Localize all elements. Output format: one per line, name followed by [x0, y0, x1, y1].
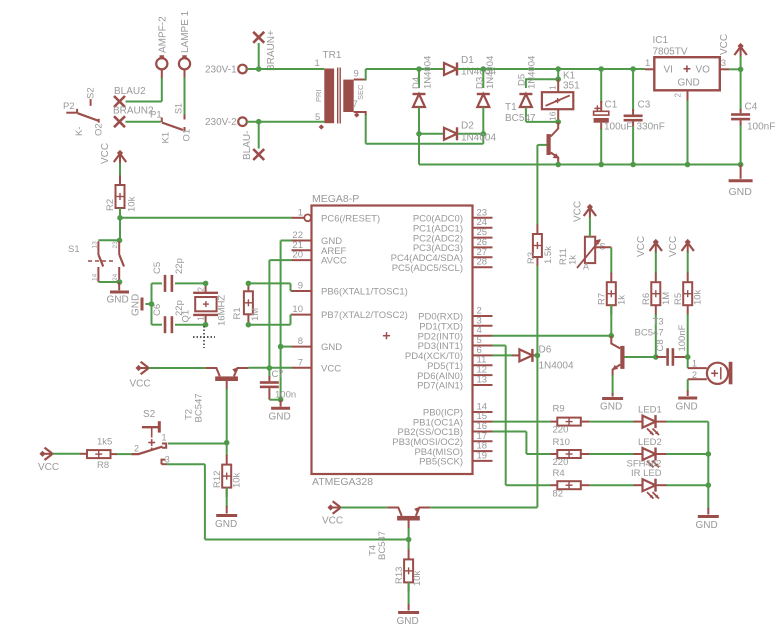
diode D5 1N4004: [516, 56, 537, 122]
svg-text:C3: C3: [638, 100, 651, 111]
svg-text:1: 1: [692, 359, 697, 369]
svg-text:D6: D6: [539, 345, 552, 356]
svg-text:230V-2: 230V-2: [205, 117, 237, 128]
svg-text:1: 1: [298, 207, 303, 218]
junction T1 emitter / ground rail: [555, 162, 561, 168]
junction 230V-2/BLAU-: [256, 119, 262, 125]
svg-text:R2: R2: [105, 199, 116, 211]
svg-text:T3: T3: [653, 317, 664, 328]
svg-text:9: 9: [354, 69, 359, 80]
unrouted cross BLAU-: [242, 131, 264, 160]
svg-text:R13: R13: [394, 567, 405, 584]
capacitor C7 100n: [260, 368, 296, 401]
svg-text:BLAU-: BLAU-: [242, 131, 253, 160]
svg-text:2: 2: [134, 444, 139, 454]
resistor R1 1M: [232, 283, 261, 324]
svg-text:1M: 1M: [250, 308, 261, 321]
resistor R2 10k: [105, 175, 138, 218]
ground GND (R12): [215, 506, 237, 530]
junction IRLED/rail: [706, 482, 712, 488]
resistor R10 220: [551, 437, 590, 468]
svg-text:R1: R1: [232, 307, 243, 319]
power VCC (R8): [38, 448, 80, 473]
svg-text:10k: 10k: [412, 570, 423, 586]
svg-text:100nF: 100nF: [747, 122, 775, 133]
svg-text:1N4004: 1N4004: [526, 56, 537, 89]
svg-text:PRI: PRI: [314, 89, 323, 102]
junction C1 / ground rail: [598, 162, 604, 168]
svg-text:R10: R10: [553, 437, 570, 448]
svg-text:D2: D2: [461, 121, 474, 132]
svg-text:1k: 1k: [616, 295, 627, 305]
trimmer R11 1k: [558, 237, 611, 272]
power VCC (at regulator): [719, 34, 747, 69]
junction +V/C3: [630, 66, 636, 72]
junction LED2/rail: [706, 451, 712, 457]
diode D1 1N4004: [444, 55, 496, 78]
svg-text:5: 5: [315, 112, 320, 123]
svg-text:16MHZ: 16MHZ: [217, 295, 228, 326]
wire D5 bottom to K1 pin16: [526, 121, 558, 123]
svg-text:1: 1: [315, 58, 320, 69]
power VCC (R11): [573, 201, 597, 237]
junction 230V-1/BRAUN+: [256, 66, 262, 72]
regulator IC1 7805TV: [645, 35, 729, 165]
junction +V/C1: [598, 66, 604, 72]
svg-text:GND: GND: [321, 342, 342, 353]
wire LAMPE pad down to relay contact S1: [174, 69, 185, 114]
svg-text:PD7(AIN1): PD7(AIN1): [417, 381, 463, 392]
svg-text:LAMPE 1: LAMPE 1: [180, 10, 191, 53]
junction VCC/C4: [738, 67, 744, 73]
capacitor C3 330nF: [624, 69, 665, 165]
junction -V/D4/D2: [416, 131, 422, 137]
svg-text:1.5k: 1.5k: [543, 246, 554, 264]
resistor R6 1M: [641, 273, 672, 357]
LED IR LED SFH482: [627, 459, 668, 499]
relay coil K1 351: [542, 71, 580, 122]
wire IR LED to cathode rail: [666, 454, 708, 509]
svg-text:LED1: LED1: [638, 405, 662, 416]
svg-text:MEGA8-P: MEGA8-P: [312, 193, 359, 205]
svg-text:VCC: VCC: [668, 236, 679, 257]
junction regulator GND / ground rail: [685, 162, 691, 168]
svg-text:VCC: VCC: [719, 34, 730, 55]
svg-text:PB6(XTAL1/TOSC1): PB6(XTAL1/TOSC1): [321, 287, 408, 298]
svg-text:23: 23: [112, 241, 119, 249]
crystal Q1 16MHZ: [181, 283, 228, 326]
power VCC (T2): [130, 362, 206, 390]
transistor T1 BC547: [505, 102, 559, 165]
svg-text:VCC: VCC: [322, 516, 343, 527]
svg-text:7: 7: [353, 99, 358, 110]
svg-text:BC547: BC547: [194, 393, 205, 422]
svg-text:28: 28: [477, 257, 488, 268]
pad LAMPE 1 (circle connector): [179, 10, 191, 69]
wire regulator VO to VCC node: [729, 68, 741, 70]
diode D2 1N4004: [419, 121, 496, 144]
wire AMPF-2 pad down to BLAU2 cross: [126, 69, 162, 101]
svg-text:100nF: 100nF: [677, 324, 688, 351]
unrouted cross BRAUN2: [113, 106, 154, 128]
svg-text:10k: 10k: [127, 196, 138, 212]
resistor R3 1.5k: [526, 225, 554, 356]
svg-text:1: 1: [645, 58, 650, 69]
resistor R8 1k5: [80, 437, 117, 472]
wire 230V-1 to transformer pin1: [247, 68, 324, 70]
svg-text:IR LED: IR LED: [631, 468, 662, 479]
svg-text:VI: VI: [664, 65, 673, 76]
resistor R12 10k: [212, 443, 243, 507]
LED LED2: [634, 437, 668, 468]
capacitor C4 100nF: [731, 69, 775, 164]
wire AC1 rail to bridge/D1: [366, 68, 444, 70]
junction XTAL bottom/C6: [203, 322, 209, 328]
svg-text:C4: C4: [745, 102, 758, 113]
svg-text:GND: GND: [600, 402, 622, 413]
pad 230V-1: [205, 65, 247, 76]
svg-text:1k: 1k: [568, 255, 579, 265]
svg-text:10k: 10k: [232, 472, 243, 488]
svg-text:BLAU2: BLAU2: [114, 86, 146, 97]
ground GND (C7): [269, 400, 291, 423]
diode D4 1N4004: [411, 56, 434, 134]
transistor T3 BC547: [611, 317, 663, 395]
svg-text:2: 2: [674, 93, 683, 98]
svg-text:1: 1: [547, 85, 557, 90]
svg-text:GND: GND: [269, 412, 291, 423]
svg-text:TR1: TR1: [323, 50, 342, 61]
svg-text:Q1: Q1: [181, 310, 192, 323]
junction GND net pin8: [278, 344, 284, 350]
svg-text:K-: K-: [74, 127, 85, 137]
capacitor C8 100nF: [655, 324, 688, 365]
wire S2 pin3 run to T4 base: [167, 464, 409, 539]
svg-text:351: 351: [563, 81, 580, 92]
wire ground rail to GND symbol: [740, 165, 742, 179]
svg-text:19: 19: [477, 450, 488, 461]
svg-text:1k5: 1k5: [97, 437, 112, 448]
wire LED1 to cathode rail: [666, 422, 708, 454]
svg-text:S1: S1: [68, 244, 80, 255]
svg-text:ATMEGA328: ATMEGA328: [312, 476, 373, 488]
resistor R13 10k: [394, 540, 423, 606]
wire BRAUN2 cross to relay pole P1: [126, 121, 161, 123]
wire R9 to LED1: [590, 421, 634, 423]
wire XTAL1 net to MCU pin9: [248, 283, 291, 291]
junction XTAL top/C5: [203, 281, 209, 287]
resistor R9 220: [551, 404, 590, 436]
junction T4 base / S2 line: [406, 537, 412, 543]
svg-text:22p: 22p: [174, 258, 185, 274]
wire MCU pin22 GND down: [281, 241, 292, 400]
svg-text:GND: GND: [107, 295, 129, 306]
wire TR1 pin7 to AC2: [354, 112, 484, 144]
svg-text:1: 1: [196, 316, 205, 321]
svg-text:D1: D1: [461, 55, 474, 66]
junction R7 / pin4 / T3 collector: [609, 333, 615, 339]
junction reset/R2: [117, 215, 123, 221]
svg-text:C1: C1: [605, 100, 618, 111]
svg-text:PB7(XTAL2/TOSC2): PB7(XTAL2/TOSC2): [321, 310, 408, 321]
wire S2 pin1 to T2 base / R12: [168, 443, 227, 445]
junction R1 bottom: [246, 322, 252, 328]
svg-text:AVCC: AVCC: [321, 256, 347, 267]
wire MCU pin15 to R9: [493, 421, 551, 423]
svg-text:GND: GND: [215, 519, 237, 530]
wire K1 branch: [557, 69, 559, 79]
diode D6 1N4004: [493, 345, 574, 372]
svg-text:1: 1: [162, 433, 167, 443]
svg-text:BRAUN+: BRAUN+: [266, 30, 277, 71]
wire LED2 to cathode rail: [666, 453, 708, 455]
ground GND (S1): [107, 282, 130, 306]
unrouted cross BRAUN+: [253, 30, 277, 71]
wire R10 to LED2: [590, 453, 634, 455]
resistor R7 1k: [597, 273, 628, 336]
junction S2/T2/R12: [224, 440, 230, 446]
svg-text:PC5(ADC5/SCL): PC5(ADC5/SCL): [392, 263, 463, 274]
svg-text:S2: S2: [143, 409, 156, 420]
pad 230V-2: [205, 117, 247, 128]
svg-text:220: 220: [553, 425, 569, 436]
power VCC (T4): [322, 501, 387, 526]
ground GND (crystal caps, rotated): [131, 294, 152, 316]
svg-text:T1: T1: [505, 102, 517, 113]
svg-text:1N4004: 1N4004: [423, 56, 434, 89]
power VCC (reset pullup): [100, 143, 126, 176]
svg-text:13: 13: [92, 241, 99, 249]
svg-text:VCC: VCC: [38, 462, 59, 473]
svg-text:1N4004: 1N4004: [539, 361, 574, 372]
svg-text:LED2: LED2: [638, 437, 662, 448]
junction S1 bottom / GND: [117, 279, 123, 285]
svg-text:SEC: SEC: [356, 84, 365, 100]
svg-text:13: 13: [477, 375, 488, 386]
svg-text:C8: C8: [655, 339, 666, 351]
power VCC (R5): [668, 236, 694, 274]
svg-text:O1: O1: [182, 129, 193, 142]
svg-text:VO: VO: [696, 65, 711, 76]
pad AMPF-2 (circle connector): [156, 16, 168, 69]
junction C4 / ground rail: [738, 162, 744, 168]
wire MCU pin8 GND: [281, 346, 292, 348]
svg-text:C5: C5: [152, 262, 163, 274]
junction +V rail / K1 branch: [555, 66, 561, 72]
junction +V/D3: [481, 66, 487, 72]
svg-text:BC547: BC547: [377, 531, 388, 560]
svg-text:9: 9: [298, 281, 303, 292]
svg-text:S2: S2: [86, 87, 97, 99]
wire TR1 pin9 to AC1 top rail: [354, 69, 366, 81]
svg-text:1M: 1M: [661, 292, 672, 305]
transformer TR1: [314, 50, 365, 130]
svg-text:A: A: [583, 262, 589, 272]
svg-text:R6: R6: [641, 293, 652, 305]
svg-text:R3: R3: [526, 252, 537, 264]
ground GND (R13): [397, 604, 420, 627]
junction AC2/D2/D3: [481, 131, 487, 137]
svg-text:R4: R4: [553, 468, 565, 479]
wire R11 wiper down to R7: [610, 247, 612, 273]
wire MCU pin4 to R7 node: [493, 335, 612, 337]
svg-text:VCC: VCC: [321, 363, 341, 374]
transistor T2 BC547: [184, 367, 249, 442]
svg-text:PB5(SCK): PB5(SCK): [419, 457, 463, 468]
wire reset net to MCU pin1: [120, 217, 292, 219]
svg-text:D4: D4: [411, 77, 422, 89]
diode D3 1N4004: [475, 56, 497, 134]
svg-text:R12: R12: [212, 471, 223, 488]
svg-text:GND: GND: [676, 402, 698, 413]
LED LED1: [634, 405, 668, 436]
svg-text:BC547: BC547: [635, 328, 664, 339]
svg-text:R5: R5: [673, 293, 684, 305]
svg-text:7805TV: 7805TV: [653, 47, 688, 58]
wire BLAU- down from 230V-2: [258, 122, 260, 149]
relay contact K1 set1 (P1/S1/O1): [150, 109, 193, 143]
svg-text:3: 3: [721, 58, 726, 69]
svg-text:PC6(/RESET): PC6(/RESET): [321, 214, 380, 225]
wire MCU pin7 VCC: [248, 367, 291, 369]
svg-text:AMPF-2: AMPF-2: [158, 16, 169, 53]
svg-text:VCC: VCC: [573, 201, 584, 222]
ground GND (power supply): [729, 181, 753, 198]
junction S1 top: [117, 238, 123, 244]
svg-text:VCC: VCC: [130, 379, 151, 390]
svg-text:VCC: VCC: [100, 143, 111, 164]
svg-text:GND: GND: [397, 616, 419, 627]
svg-text:S1: S1: [174, 103, 184, 114]
svg-text:220: 220: [553, 457, 569, 468]
capacitor C6 22p: [152, 300, 206, 333]
resistor R5 10k: [673, 273, 704, 357]
svg-text:BRAUN2: BRAUN2: [113, 106, 154, 117]
svg-text:GND: GND: [696, 520, 718, 531]
svg-text:GND: GND: [729, 186, 753, 198]
wire T1 base from R3: [537, 145, 546, 226]
svg-text:R8: R8: [97, 460, 109, 471]
svg-text:7: 7: [298, 357, 303, 368]
junction K1 pin1 / D5: [555, 76, 561, 82]
svg-text:10: 10: [292, 304, 303, 315]
capacitor C1 100uF: [594, 69, 633, 165]
svg-text:K1: K1: [161, 132, 172, 144]
wire reset down to S1: [119, 218, 121, 241]
svg-text:100uF: 100uF: [604, 122, 632, 133]
svg-text:VCC: VCC: [636, 236, 647, 257]
transistor T4 BC547: [368, 507, 431, 560]
wire XTAL2 net to MCU pin10: [248, 315, 291, 325]
svg-text:C7: C7: [272, 369, 284, 380]
wire BRAUN+ cross down to 230V-1 net: [258, 43, 260, 69]
svg-text:14: 14: [92, 273, 99, 281]
microphone MIC1: [688, 357, 733, 392]
unrouted cross BLAU2: [114, 86, 146, 107]
svg-text:2: 2: [196, 287, 205, 292]
svg-text:1N4004: 1N4004: [461, 133, 496, 144]
power VCC (R6): [636, 236, 662, 274]
wire MCU pin16 to R10: [493, 432, 551, 455]
wire C5/C6 ground leg: [151, 283, 153, 324]
junction T3 base / R6 / C8: [653, 354, 659, 360]
junction C8 / R5 / mic: [685, 354, 691, 360]
svg-text:16: 16: [547, 111, 557, 121]
junction D6 / T1-base line: [535, 353, 541, 359]
svg-text:GND: GND: [131, 294, 142, 316]
junction C3 / ground rail: [630, 162, 636, 168]
junction AC1/D4: [416, 66, 422, 72]
svg-text:O2: O2: [93, 123, 104, 136]
svg-text:230V-1: 230V-1: [205, 65, 237, 76]
ground rail: [419, 164, 741, 166]
svg-text:D3: D3: [475, 77, 486, 89]
wire D1 cathode to +V rail: [458, 68, 645, 70]
svg-text:R9: R9: [553, 404, 565, 415]
wire T4 emitter to sense line: [430, 355, 537, 507]
wire -V down to ground rail: [418, 134, 420, 165]
wire R8 to S2 pin2: [117, 453, 132, 455]
junction R1 top: [246, 281, 252, 287]
ground GND (T3): [600, 393, 623, 413]
svg-text:BC547: BC547: [505, 113, 536, 124]
svg-text:3: 3: [165, 455, 170, 465]
wire MCU pin5 to R4: [493, 346, 551, 486]
capacitor C5 22p: [152, 258, 206, 292]
relay contact K1 set2 (P2/S2/O2): [63, 87, 104, 136]
ground GND (mic): [676, 391, 698, 413]
resistor R4 82: [551, 468, 590, 500]
svg-text:P2: P2: [63, 101, 75, 112]
mouse crosshair artefact: [193, 326, 215, 348]
IC U1 MEGA8-P (ATMEGA328): [292, 193, 493, 488]
svg-text:8: 8: [298, 336, 303, 347]
svg-text:IC1: IC1: [653, 35, 669, 46]
junction C7/GND net: [278, 397, 284, 403]
junction VCC/AVCC/C7: [267, 365, 273, 371]
switch S2 (pushbutton): [132, 409, 170, 465]
svg-text:10k: 10k: [693, 289, 704, 305]
svg-text:82: 82: [553, 489, 564, 500]
wire 230V-2 to transformer pin5: [247, 121, 324, 123]
svg-text:R7: R7: [597, 293, 608, 305]
svg-text:20: 20: [292, 250, 303, 261]
wire D5 top: [526, 79, 558, 88]
svg-text:330nF: 330nF: [637, 122, 665, 133]
wire R4 to IR LED: [590, 484, 634, 486]
svg-text:GND: GND: [678, 78, 700, 89]
junction K1 pin16 / T1 collector: [555, 119, 561, 125]
ground GND (LED rail): [696, 508, 719, 531]
svg-text:1N4004: 1N4004: [485, 56, 496, 89]
junction C5-C6 GND tap: [149, 301, 155, 307]
switch S1: [68, 240, 124, 282]
svg-text:P1: P1: [150, 109, 162, 120]
wire MCU pin20 AVCC down: [269, 260, 291, 368]
